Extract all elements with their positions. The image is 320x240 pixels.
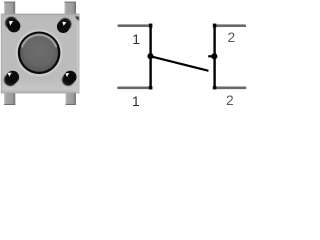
- schematic: node junction left: [147, 53, 153, 59]
- schematic: left contact bar (wire): [149, 24, 151, 89]
- pushbutton S1: corner rivet bottom-right: [64, 71, 77, 84]
- svg-text:1: 1: [132, 32, 140, 47]
- schematic: corner terminal top-right: [213, 24, 217, 28]
- pushbutton S1 breadboard view: pin leg top-right: [65, 2, 77, 15]
- schematic: pin 2 bottom lead: [215, 86, 246, 89]
- pushbutton S1: leg shadow bottom-right: [62, 74, 74, 86]
- schematic: corner terminal bottom-left: [149, 86, 153, 90]
- schematic: pin 1 top lead: [119, 24, 151, 27]
- pushbutton S1: leg shadow top-left: [5, 17, 17, 29]
- pushbutton S1: corner rivet bottom-left: [6, 71, 19, 84]
- svg-text:2: 2: [226, 93, 234, 108]
- schematic: corner terminal top-left: [149, 24, 153, 28]
- pushbutton S1: corner rivet top-right: [57, 20, 70, 33]
- pushbutton S1 breadboard view: pin leg bottom-left: [4, 92, 15, 105]
- pushbutton S1: leg shadow bottom-left: [4, 74, 16, 86]
- pushbutton S1: leg shadow top-right: [59, 16, 79, 30]
- schematic: corner terminal bottom-right: [213, 86, 217, 90]
- schematic: switch actuator arm (wire): [151, 56, 208, 70]
- schematic: pin 1 bottom lead: [119, 86, 151, 89]
- pushbutton S1 breadboard view: pin leg top-left: [4, 2, 15, 15]
- svg-text:2: 2: [228, 30, 236, 45]
- schematic: right contact bar (wire): [213, 24, 215, 89]
- svg-text:1: 1: [132, 94, 140, 108]
- schematic: pin 2 top lead: [215, 24, 245, 27]
- schematic: node junction right: [211, 53, 217, 59]
- pushbutton S1 breadboard view: body: [1, 14, 79, 93]
- pushbutton S1 breadboard view: pin leg bottom-right: [66, 92, 77, 105]
- pushbutton S1: round actuator button: [17, 31, 61, 75]
- pushbutton S1: corner rivet top-left: [8, 20, 21, 33]
- schematic: fixed contact stub (wire): [208, 55, 214, 57]
